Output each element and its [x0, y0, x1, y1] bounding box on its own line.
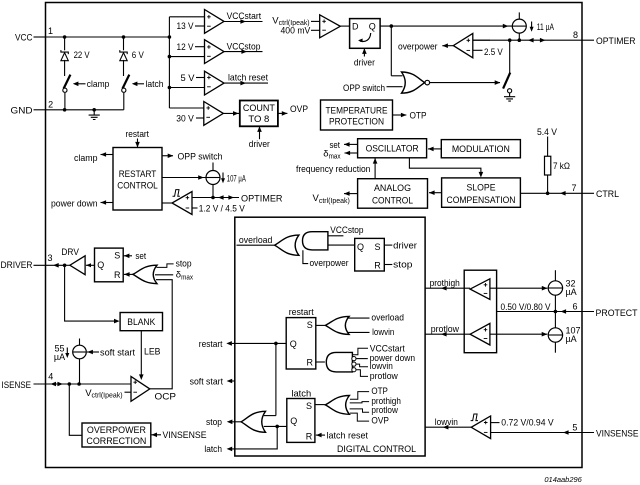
- svg-text:CONTROL: CONTROL: [117, 181, 158, 192]
- wire zener to latch switch: [123, 60, 125, 76]
- wire latch S input: [315, 404, 325, 406]
- svg-text:OPP switch: OPP switch: [343, 83, 385, 94]
- svg-text:latch: latch: [146, 79, 164, 90]
- wire driver input arrow: [363, 48, 365, 56]
- svg-text:Q: Q: [369, 21, 376, 31]
- svg-text:restart: restart: [199, 339, 223, 350]
- block OSCILLATOR: [358, 139, 427, 158]
- svg-text:S: S: [374, 242, 380, 252]
- wire clamp switch to GND: [64, 93, 66, 110]
- comparator protlow: [470, 323, 490, 345]
- svg-text:µA: µA: [566, 287, 577, 297]
- svg-text:107 µA: 107 µA: [227, 173, 246, 183]
- svg-text:VINSENSE: VINSENSE: [163, 430, 207, 441]
- svg-text:CONTROL: CONTROL: [372, 196, 413, 207]
- svg-text:R: R: [114, 270, 121, 280]
- node CTRL-resistor: [546, 192, 550, 196]
- wire VCC sense bus: [168, 17, 170, 108]
- svg-text:6 V: 6 V: [132, 50, 145, 61]
- block DIGITAL CONTROL: [235, 217, 425, 456]
- svg-text:5 V: 5 V: [181, 73, 196, 84]
- wire soft start output: [232, 380, 236, 382]
- svg-text:6: 6: [572, 301, 577, 311]
- wire restart S input: [316, 324, 325, 326]
- wire VCC rail: [46, 36, 170, 38]
- NOR gate OPP: [402, 72, 425, 93]
- wire OCP loop: [150, 280, 172, 389]
- svg-text:SLOPE: SLOPE: [467, 182, 496, 193]
- svg-text:set: set: [135, 251, 146, 262]
- svg-text:5: 5: [572, 422, 577, 432]
- svg-text:COMPENSATION: COMPENSATION: [447, 195, 516, 206]
- wire ISENSE to overpower correction: [69, 384, 82, 435]
- wire restart Q output: [232, 342, 286, 344]
- wire R stop input: [384, 264, 392, 266]
- svg-text:Q: Q: [357, 242, 364, 252]
- svg-text:R: R: [374, 260, 381, 270]
- svg-text:Q: Q: [290, 339, 297, 349]
- svg-text:OTP: OTP: [410, 111, 427, 122]
- svg-text:OCP: OCP: [155, 391, 177, 402]
- zener diode 22V: [61, 50, 68, 54]
- latch VCCstop SR: [355, 238, 385, 271]
- svg-text:0.72 V/0.94 V: 0.72 V/0.94 V: [501, 417, 554, 428]
- node VCC-bus: [168, 35, 172, 39]
- wire GND rail: [46, 109, 124, 111]
- zener diode 6V: [120, 50, 127, 54]
- svg-text:PROTECT: PROTECT: [596, 308, 638, 319]
- wire Vctrl(Ipeak) output: [344, 193, 358, 195]
- comparator optimer 1.2V 4.5V: [173, 190, 180, 197]
- svg-text:Q: Q: [290, 416, 297, 426]
- node ISENSE-opc branch: [68, 382, 72, 386]
- wire Q to DRV: [86, 264, 95, 266]
- current source 107uA: [212, 163, 214, 171]
- svg-text:Q: Q: [97, 260, 104, 270]
- svg-text:set: set: [330, 140, 341, 151]
- svg-text:12 V: 12 V: [177, 42, 195, 53]
- wire protlow to 107uA: [490, 333, 547, 335]
- wire optimer comp output to restart control: [162, 202, 172, 204]
- wire Q to NOR gate: [390, 26, 392, 76]
- node VCC-clamp branch: [63, 35, 67, 39]
- svg-text:OVP: OVP: [371, 416, 389, 427]
- block OVERPOWER CORRECTION: [82, 423, 151, 447]
- svg-text:protlow: protlow: [371, 405, 398, 416]
- svg-text:VCCstop: VCCstop: [227, 42, 261, 53]
- wire stop input hook: [157, 264, 174, 268]
- svg-text:VCC: VCC: [15, 32, 33, 43]
- node PROTECT junction: [554, 310, 558, 314]
- svg-text:400 mV: 400 mV: [281, 25, 311, 36]
- svg-text:GND: GND: [11, 106, 33, 117]
- svg-text:OPTIMER: OPTIMER: [596, 36, 636, 47]
- wire prothigh to 32uA: [490, 287, 548, 289]
- svg-text:clamp: clamp: [74, 153, 98, 164]
- svg-text:protlow: protlow: [431, 324, 459, 335]
- wire prothigh output: [425, 287, 470, 289]
- wire latch output lower: [232, 426, 277, 449]
- block MODULATION: [441, 140, 520, 158]
- svg-text:BLANK: BLANK: [127, 317, 156, 328]
- switch clamp: [64, 75, 71, 89]
- svg-text:2.5 V: 2.5 V: [484, 47, 503, 58]
- svg-text:ANALOG: ANALOG: [374, 183, 411, 194]
- OR gate driver reset: [133, 265, 157, 284]
- svg-text:prothigh: prothigh: [430, 278, 460, 289]
- svg-text:frequency reduction: frequency reduction: [296, 164, 370, 175]
- svg-text:11 µA: 11 µA: [537, 22, 554, 32]
- wire driver to counter: [259, 126, 261, 139]
- svg-text:lowvin: lowvin: [372, 327, 394, 338]
- node Q-branch: [390, 24, 394, 28]
- wire OPTIMER switch drop: [509, 40, 511, 73]
- svg-text:2: 2: [48, 99, 53, 109]
- wire OTP output: [393, 114, 407, 116]
- svg-text:VCCstart: VCCstart: [227, 11, 262, 22]
- wire restart R input: [316, 361, 325, 363]
- wire OPP switch output: [162, 155, 173, 157]
- svg-text:4: 4: [48, 372, 53, 382]
- wire 0.72V ref: [491, 422, 500, 424]
- svg-text:driver: driver: [393, 240, 417, 251]
- current source 107uA protect: [554, 312, 556, 328]
- svg-text:3: 3: [47, 253, 52, 263]
- wire overpower to OR: [303, 250, 308, 263]
- comparator overpower 2.5V: [453, 33, 473, 57]
- pin 8 OPTIMER: [473, 39, 594, 41]
- svg-text:soft start: soft start: [190, 376, 224, 387]
- svg-text:overload: overload: [239, 235, 273, 246]
- comparator VCCstop 12V: [195, 46, 205, 48]
- wire LEB: [140, 331, 142, 378]
- svg-text:13 V: 13 V: [177, 21, 195, 32]
- wire protlow output: [425, 333, 470, 335]
- AND gate VCCstop-driver: [303, 232, 328, 250]
- comparator prothigh: [470, 279, 490, 300]
- svg-text:22 V: 22 V: [74, 50, 91, 61]
- svg-text:stop: stop: [176, 259, 192, 270]
- switch OPTIMER: [503, 73, 510, 89]
- wire zener to clamp switch: [64, 60, 66, 76]
- node bus-12V: [168, 55, 172, 59]
- pin 5 VINSENSE: [491, 432, 594, 434]
- svg-text:S: S: [306, 401, 312, 411]
- wire S driver input: [384, 244, 392, 246]
- svg-text:OSCILLATOR: OSCILLATOR: [366, 144, 419, 155]
- svg-text:stop: stop: [206, 417, 222, 428]
- svg-text:stop: stop: [393, 259, 412, 270]
- node ISENSE-softstart branch: [77, 382, 81, 386]
- wire set output: [344, 143, 358, 145]
- svg-text:protlow: protlow: [370, 371, 398, 382]
- current source 55uA soft start: [79, 339, 81, 346]
- svg-text:latch: latch: [204, 444, 222, 455]
- svg-text:7 kΩ: 7 kΩ: [553, 161, 570, 171]
- wire driver latch Q to AND: [328, 244, 355, 246]
- wire optimer sense line: [192, 197, 239, 199]
- wire NOR to OPTIMER switch: [430, 82, 500, 84]
- wire modulation to oscillator: [428, 148, 441, 150]
- svg-text:RESTART: RESTART: [119, 169, 157, 180]
- wire clamp output: [101, 154, 114, 156]
- svg-text:5.4 V: 5.4 V: [537, 127, 558, 138]
- svg-text:CTRL: CTRL: [596, 189, 619, 200]
- comparator OCP: [131, 377, 150, 402]
- current source 32uA: [554, 270, 556, 281]
- wire lowvin input 2: [356, 364, 368, 367]
- svg-text:ISENSE: ISENSE: [2, 380, 32, 391]
- svg-text:OVERPOWER: OVERPOWER: [87, 425, 146, 436]
- comparator lowvin: [471, 414, 478, 421]
- wire clamp branch upper: [64, 37, 66, 50]
- block COUNT TO 8: [240, 101, 278, 127]
- svg-text:driver: driver: [249, 139, 270, 150]
- pin 7 CTRL: [520, 192, 594, 194]
- svg-text:VCCstop: VCCstop: [330, 225, 363, 236]
- node GND-ground: [92, 108, 96, 112]
- wire lowvin input: [348, 331, 370, 333]
- block protect comparators: [464, 270, 496, 353]
- svg-text:PROTECTION: PROTECTION: [329, 117, 384, 128]
- wire OTP input: [350, 392, 369, 400]
- svg-text:soft start: soft start: [100, 347, 135, 358]
- wire protlow input to latch OR: [350, 409, 370, 412]
- wire delta-max output: [345, 152, 358, 154]
- svg-text:overload: overload: [371, 313, 404, 324]
- wire OVP output: [278, 112, 288, 114]
- wire latch switch to GND: [123, 93, 125, 110]
- switch latch: [123, 75, 130, 89]
- ground symbol at OPTIMER switch: [509, 93, 511, 97]
- svg-text:restart: restart: [289, 307, 314, 318]
- wire resistor to CTRL: [547, 175, 549, 193]
- resistor 7k: [545, 156, 551, 175]
- AND gate restart reset: [326, 352, 352, 372]
- wire stop output: [232, 421, 241, 423]
- wire latch Q output: [264, 425, 287, 427]
- wire VINSENSE to overpower correction: [151, 434, 161, 436]
- block SLOPE COMPENSATION: [442, 178, 521, 207]
- wire OVP input: [350, 413, 369, 421]
- wire restart control to 107uA source: [162, 177, 206, 179]
- node OPTIMER rail-switch: [508, 38, 512, 42]
- comparator VCCstart 13V: [169, 16, 204, 18]
- block RESTART CONTROL: [113, 148, 162, 211]
- wire slope to analog control: [429, 192, 442, 194]
- svg-text:overpower: overpower: [310, 258, 349, 269]
- svg-text:latch reset: latch reset: [327, 431, 369, 442]
- wire prothigh input: [350, 402, 369, 403]
- svg-text:7: 7: [571, 183, 576, 193]
- wire DRV to DRIVER pin: [65, 264, 70, 266]
- wire soft start label: [87, 351, 99, 353]
- node OPTIMER rail-source: [518, 38, 522, 42]
- svg-text:power down: power down: [51, 199, 98, 210]
- svg-text:D: D: [352, 21, 359, 31]
- svg-text:0.50 V/0.80 V: 0.50 V/0.80 V: [501, 302, 552, 313]
- node optimer-107uA: [211, 196, 215, 200]
- current source 11uA: [518, 12, 520, 19]
- svg-text:R: R: [307, 358, 314, 368]
- wire protlow input: [356, 370, 368, 377]
- svg-text:LEB: LEB: [144, 346, 161, 357]
- wire set input: [123, 255, 132, 257]
- wire power down output: [101, 202, 114, 204]
- svg-text:OPTIMER: OPTIMER: [241, 193, 283, 204]
- wire analog control to oscillator: [374, 159, 376, 179]
- node latch Q: [275, 425, 279, 429]
- node DRIVER junction: [63, 264, 67, 268]
- svg-text:driver: driver: [354, 57, 375, 68]
- wire 1.2V 4.5V ref: [192, 207, 198, 209]
- OR gate latch set: [325, 396, 349, 415]
- svg-text:clamp: clamp: [87, 79, 110, 90]
- wire restart Q to stop OR: [275, 343, 277, 415]
- wire delta-max input: [155, 274, 173, 276]
- latch DRV SR: [95, 248, 124, 282]
- wire lowvin output: [425, 426, 471, 428]
- block BLANK: [120, 313, 162, 331]
- svg-text:overpower: overpower: [398, 42, 438, 53]
- svg-text:latch reset: latch reset: [228, 72, 268, 83]
- node VCC-latch branch: [122, 35, 126, 39]
- svg-text:014aab296: 014aab296: [544, 475, 582, 484]
- wire oscillator to slope compensation: [409, 158, 481, 176]
- block TEMPERATURE PROTECTION: [321, 100, 393, 130]
- ground symbol at GND rail: [93, 110, 95, 115]
- wire latch R input latch reset: [316, 434, 325, 436]
- comparator latch reset 5V: [196, 77, 205, 79]
- block driver switch D-Q: [350, 19, 381, 49]
- node GND-clamp: [63, 108, 67, 112]
- svg-text:1: 1: [48, 26, 53, 36]
- svg-text:DRV: DRV: [61, 247, 79, 258]
- svg-text:lowvin: lowvin: [435, 417, 458, 428]
- wire overpower output: [442, 45, 453, 47]
- svg-text:DIGITAL CONTROL: DIGITAL CONTROL: [337, 444, 416, 455]
- wire OR to R input: [124, 273, 133, 275]
- node bus-5V: [168, 86, 172, 90]
- svg-text:1.2 V / 4.5 V: 1.2 V / 4.5 V: [199, 204, 246, 215]
- svg-text:S: S: [114, 251, 120, 261]
- svg-text:OVP: OVP: [290, 104, 308, 115]
- wire overload input: [347, 317, 370, 319]
- block ANALOG CONTROL: [358, 179, 428, 209]
- wire VCCstart input: [352, 348, 368, 355]
- svg-text:VINSENSE: VINSENSE: [596, 429, 639, 440]
- node restart Q: [274, 342, 278, 346]
- svg-text:CORRECTION: CORRECTION: [86, 436, 146, 447]
- wire latch branch upper: [123, 37, 125, 50]
- OR gate overload: [275, 235, 299, 255]
- svg-text:TO 8: TO 8: [248, 114, 269, 125]
- comparator OVP 30V: [169, 107, 203, 109]
- OR gate restart set: [325, 316, 349, 334]
- wire ISENSE line: [34, 383, 132, 385]
- wire Q to 11uA source: [380, 25, 512, 27]
- svg-text:MODULATION: MODULATION: [452, 144, 510, 155]
- svg-text:µA: µA: [566, 334, 577, 344]
- svg-text:R: R: [306, 432, 313, 442]
- svg-text:TEMPERATURE: TEMPERATURE: [326, 106, 388, 117]
- svg-text:OPP switch: OPP switch: [178, 151, 223, 162]
- OR gate stop: [241, 411, 265, 432]
- svg-text:µA: µA: [54, 352, 65, 362]
- svg-text:30 V: 30 V: [176, 114, 194, 125]
- svg-text:8: 8: [573, 30, 578, 40]
- svg-text:S: S: [307, 320, 313, 330]
- pin 6 PROTECT: [497, 311, 594, 313]
- svg-text:DRIVER: DRIVER: [1, 260, 33, 271]
- svg-text:COUNT: COUNT: [243, 103, 275, 114]
- wire DRIVER to BLANK: [65, 265, 117, 321]
- wire power down input: [356, 358, 368, 360]
